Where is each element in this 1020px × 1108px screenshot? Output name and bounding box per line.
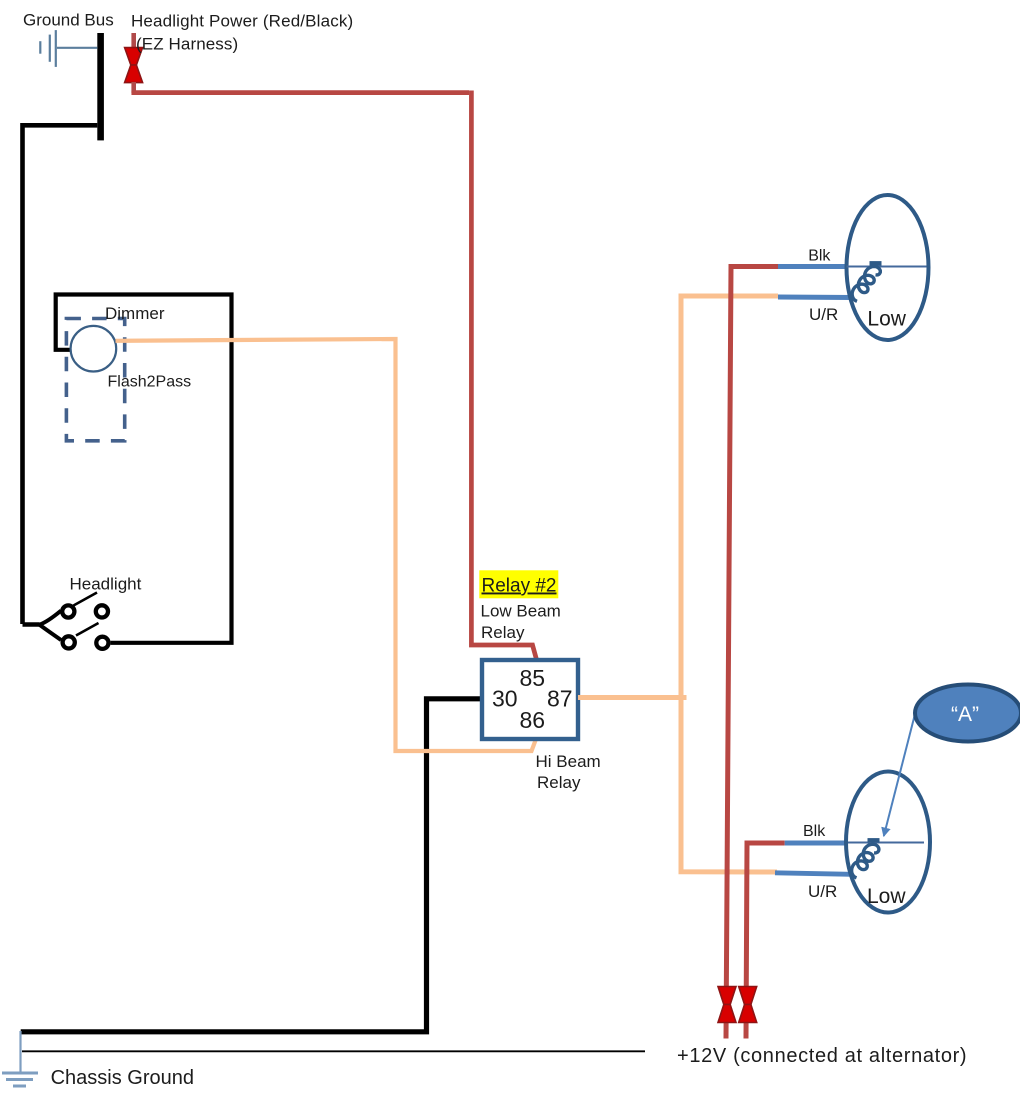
svg-text:Chassis Ground: Chassis Ground: [51, 1067, 194, 1089]
svg-text:Ground Bus: Ground Bus: [23, 11, 114, 30]
blue wire top lamp Blk: [778, 264, 846, 269]
dimmer circle: [71, 326, 117, 372]
headlight switch lever lines: [74, 593, 98, 606]
wire orange: dimmer to relay pin 86: [116, 339, 536, 751]
headlight switch contacts: [62, 605, 108, 649]
top lamp thin center line: [847, 266, 927, 268]
bottom lamp ellipse: [846, 772, 930, 913]
relay box: [482, 660, 578, 739]
svg-text:Headlight: Headlight: [70, 575, 142, 594]
ground bus bar: [97, 33, 104, 140]
headlight switch stub and fork: [23, 622, 40, 626]
svg-text:(EZ Harness): (EZ Harness): [136, 35, 238, 54]
svg-text:Relay: Relay: [481, 623, 525, 642]
svg-text:85: 85: [520, 665, 546, 691]
wire red: fuse to relay pin 85: [134, 91, 469, 93]
wire black: dimmer loop box: [56, 295, 232, 643]
svg-text:Low: Low: [867, 307, 906, 330]
arrow from callout A to bottom lamp: [884, 714, 915, 836]
wire black: bus to far-left drop: [23, 125, 98, 624]
top lamp ellipse: [847, 195, 929, 340]
blue wire top lamp U/R: [778, 295, 852, 301]
svg-text:U/R: U/R: [808, 882, 837, 901]
svg-text:86: 86: [520, 707, 546, 733]
svg-text:Headlight Power (Red/Black): Headlight Power (Red/Black): [131, 12, 353, 31]
svg-text:30: 30: [492, 686, 518, 712]
svg-text:Flash2Pass: Flash2Pass: [108, 374, 192, 391]
svg-text:Hi Beam: Hi Beam: [536, 752, 601, 771]
thin chassis line: [22, 1050, 645, 1052]
bottom lamp thin center line: [848, 842, 924, 844]
bottom lamp filament coil: [852, 840, 880, 878]
blue wire bottom lamp Blk: [785, 841, 848, 846]
wire orange: relay pin 87 to trunk: [578, 695, 687, 700]
svg-text:“A”: “A”: [951, 703, 979, 726]
svg-text:Low: Low: [867, 885, 906, 908]
svg-text:+12V (connected at alternator): +12V (connected at alternator): [677, 1045, 967, 1067]
svg-text:Blk: Blk: [808, 248, 831, 265]
svg-text:Dimmer: Dimmer: [105, 304, 165, 323]
svg-text:Low Beam: Low Beam: [481, 601, 561, 620]
svg-text:Blk: Blk: [803, 823, 826, 840]
wire red trunk 2: +12V to bottom lamp Blk: [746, 843, 785, 1039]
wire orange: trunk to both lamps U/R: [681, 296, 778, 872]
fuse connector (EZ harness) red bowtie: [125, 33, 143, 93]
wire black: relay pin 30 to chassis ground: [21, 699, 482, 1032]
svg-text:87: 87: [547, 686, 573, 712]
svg-text:Relay #2: Relay #2: [482, 576, 557, 597]
top lamp filament coil: [852, 263, 881, 301]
chassis ground symbol: [2, 1031, 38, 1086]
svg-text:Relay: Relay: [537, 773, 581, 792]
blue wire bottom lamp U/R: [775, 873, 852, 875]
fuse bowtie on trunk 2: [739, 987, 757, 1023]
svg-text:U/R: U/R: [809, 305, 838, 324]
callout A ellipse: [915, 685, 1020, 742]
wire red trunk 1: +12V to top lamp Blk: [726, 267, 778, 1039]
flash2pass dashed box: [66, 319, 124, 441]
fuse bowtie on trunk 1: [718, 987, 736, 1023]
label Relay #2 (yellow highlight): [479, 570, 558, 598]
ground symbol (battery-style, ground bus): [40, 30, 97, 67]
